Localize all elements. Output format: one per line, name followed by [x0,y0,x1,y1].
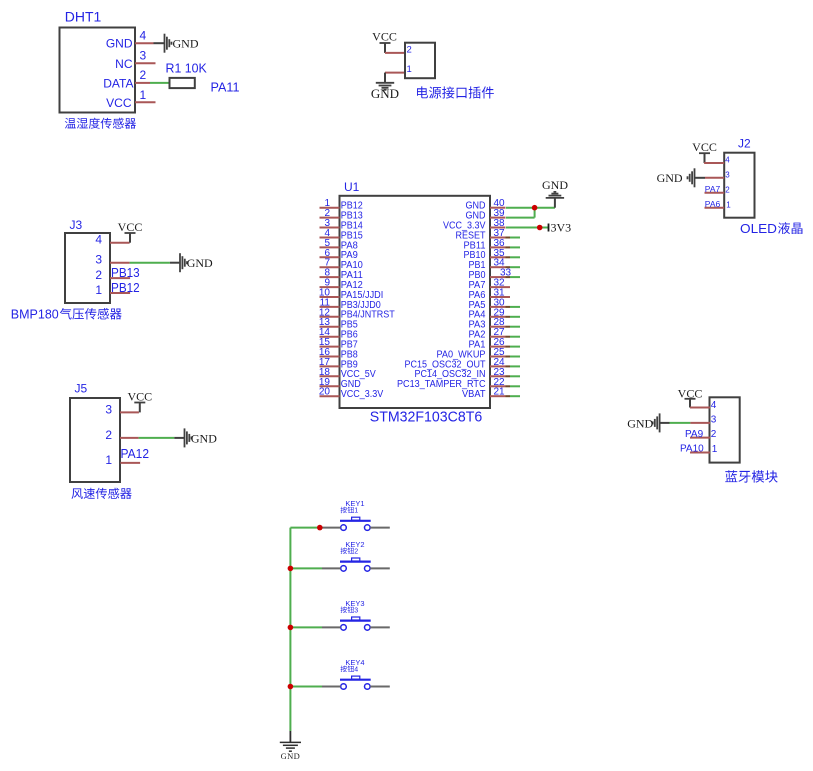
svg-text:J2: J2 [738,137,751,151]
wire U1 pin39 up to pin40 wire [506,208,535,218]
pin 1 of J3 [95,283,130,297]
wire ground to bluetooth pin 3 [660,422,691,424]
pin 9 (PA12) of U1 [320,278,364,291]
component DHT1 (temp/humidity sensor) [60,10,136,113]
svg-text:VCC: VCC [692,140,717,154]
wire pin 1 to ground [384,73,386,83]
pin 26 (PA1) of U1 [469,337,506,350]
svg-text:4: 4 [140,29,147,43]
wire DHT1 pin2 to R1 [150,82,170,84]
svg-text:20: 20 [319,387,331,398]
wire stub at U1 pin 33 [506,276,521,278]
pin 27 (PA2) of U1 [469,327,506,340]
pushbutton KEY3 [345,599,364,608]
pin 1 (PB12) of U1 [320,198,364,211]
pin 2 of power connector [385,44,412,55]
ground symbol (J5) [185,428,218,447]
pin 4 of J2 [704,156,730,165]
pin 29 (PA4) of U1 [469,307,506,320]
svg-text:PA7: PA7 [705,184,721,194]
svg-text:R1 10K: R1 10K [166,61,208,76]
svg-text:2: 2 [140,68,147,82]
pin 18 (VCC_5V) of U1 [319,367,376,380]
pin 33 (PB0) of U1 [469,268,512,281]
svg-text:VBAT: VBAT [462,389,486,400]
wire stub at U1 pin 28 [506,326,521,328]
pin 2 (DATA) of DHT1 [135,68,150,83]
pin 7 (PA10) of U1 [320,258,364,271]
pin 1 of J5 [105,453,140,467]
svg-text:4: 4 [354,667,358,674]
caption: DHT1 温湿度传感器 [65,118,136,129]
pin 6 (PA9) of U1 [320,248,359,261]
pin 2 (PB13) of U1 [320,208,364,221]
wire stub at U1 pin 37 [506,237,521,239]
switch symbol KEY3 [322,617,390,630]
svg-text:3: 3 [354,607,358,614]
junction at GND net [532,205,538,211]
wire stub at U1 pin 22 [506,385,521,387]
power symbol VCC (J3) [118,220,143,243]
power port 3V3 [549,221,572,235]
svg-text:PA11: PA11 [211,80,240,95]
pin 1 of bluetooth [690,444,718,455]
wire key bus to KEY2 [290,567,322,569]
svg-text:1: 1 [407,64,412,75]
connector J5 (wind sensor) body [70,382,120,483]
caption 按钮3 [341,607,359,615]
svg-text:VCC: VCC [372,29,397,43]
connector J2 (OLED) body [724,137,754,218]
wire stub at U1 pin 26 [506,346,521,348]
power symbol VCC (bluetooth) [678,387,703,408]
svg-text:GND: GND [281,751,301,761]
pin 11 (PB3/JJD0) of U1 [320,297,382,310]
wire stub at U1 pin 29 [506,316,521,318]
pushbutton KEY4 [345,658,364,667]
pin 30 (PA5) of U1 [469,297,506,310]
pin 3 of J3 [95,253,129,267]
svg-text:GND: GND [627,416,653,430]
pin 31 (PA6) of U1 [469,288,511,301]
pin 5 (PA8) of U1 [320,238,359,251]
pin 38 (VCC_3.3V) of U1 [443,218,506,231]
wire VCC to pin 2 [384,43,386,53]
pin 32 (PA7) of U1 [469,278,511,291]
svg-text:GND: GND [191,431,217,445]
svg-text:BMP180: BMP180 [11,308,59,322]
wire stub at U1 pin 30 [506,306,521,308]
pin 3 of J2 [705,170,730,179]
pin 16 (PB8) of U1 [319,347,358,360]
caption: OLED液晶 [740,221,802,236]
switch symbol KEY1 [322,517,390,530]
svg-text:PB13: PB13 [111,265,140,280]
pin 10 (PA15/JJDI) of U1 [319,288,383,301]
svg-text:4: 4 [711,400,717,411]
pin 20 (VCC_3.3V) of U1 [319,387,384,400]
pin 2 of J5 [105,428,138,442]
svg-text:GND: GND [371,86,399,101]
svg-text:GND: GND [106,37,133,51]
pin 3 (NC) of DHT1 [135,49,156,64]
ground symbol (bluetooth) [627,413,659,432]
pushbutton KEY1 [345,499,364,508]
pin 2 of J2 [705,185,731,194]
connector J3 (BMP180) body [65,218,110,303]
ground symbol (U1 top right) [542,178,568,198]
caption 按钮1 [341,507,359,515]
pin 37 (RESET) of U1 [456,228,506,241]
pin 3 (PB14) of U1 [320,218,364,231]
junction at KEY2 [288,566,294,572]
pin 25 (PA0_WKUP) of U1 [437,347,506,360]
ground symbol (J2) [657,168,695,187]
pin 13 (PB5) of U1 [319,317,358,330]
wire stub at U1 pin 23 [506,375,521,377]
pin 4 of J3 [95,233,129,247]
pin 34 (PB1) of U1 [469,258,506,271]
pin 22 (PC13_TAMPER_RTC) of U1 [397,377,506,390]
svg-text:PB12: PB12 [111,280,140,295]
power symbol VCC (J5) [127,390,152,413]
svg-text:2: 2 [354,548,358,555]
junction at KEY4 [288,684,294,690]
wire key bus to KEY3 [290,626,322,628]
component body: power connector [405,43,435,78]
wire U1 pin38 to 3V3 [506,227,549,229]
op-amp / MCU U1 STM32F103C8T6 body [340,180,491,426]
pin 4 (PB15) of U1 [320,228,364,241]
wire DHT1 pin4 to ground [154,42,165,44]
svg-text:3: 3 [140,49,147,63]
junction at KEY1 [317,525,323,531]
caption: 电源接口插件 [417,86,494,98]
svg-text:J3: J3 [70,218,83,232]
wire ground to J2 pin 3 [695,177,706,179]
resistor R1 [170,78,195,88]
pin 17 (PB9) of U1 [319,357,358,370]
svg-text:2: 2 [95,268,102,282]
pin 19 (GND) of U1 [319,377,361,390]
svg-text:1: 1 [95,283,102,297]
svg-text:PA6: PA6 [705,199,721,209]
svg-text:DHT1: DHT1 [65,10,102,25]
svg-text:VCC_3.3V: VCC_3.3V [341,389,384,400]
svg-text:3: 3 [105,402,112,416]
wire stub at U1 pin 24 [506,365,521,367]
svg-text:1: 1 [105,453,112,467]
svg-text:GND: GND [187,256,213,270]
wire key bus to ground [289,731,291,742]
pin 2 of J3 [95,268,130,282]
svg-text:DATA: DATA [103,76,133,90]
svg-text:PA12: PA12 [121,446,150,461]
ground symbol (power connector) [371,83,399,101]
svg-text:U1: U1 [344,180,360,194]
junction at KEY3 [288,625,294,631]
power symbol VCC (J2) [692,140,717,163]
wire stub at U1 pin 35 [506,256,521,258]
pin 4 (GND) of DHT1 [135,29,154,44]
ground symbol (J3) [180,253,213,272]
wire stub at U1 pin 36 [506,246,521,248]
pin 15 (PB7) of U1 [319,337,358,350]
caption 按钮2 [341,548,359,556]
svg-text:4: 4 [95,233,102,247]
svg-text:PA10: PA10 [680,444,704,455]
svg-text:GND: GND [657,171,683,185]
pin 12 (PB4/JNTRST) of U1 [319,307,395,320]
pin 21 (VBAT) of U1 [462,387,506,400]
caption: 蓝牙模块 [725,470,778,482]
wire stub at U1 pin 25 [506,356,521,358]
pin 35 (PB10) of U1 [464,248,506,261]
power symbol VCC (power connector) [372,29,397,43]
pin 24 (PC15_OSC32_OUT) of U1 [405,357,506,370]
caption: 风速传感器 [71,488,131,499]
pin 4 of bluetooth [690,400,717,411]
pin 2 of bluetooth [690,429,717,440]
wire J3 pin3 to ground [130,262,180,264]
wire stub at U1 pin 34 [506,266,521,268]
svg-text:VCC: VCC [118,220,143,234]
pushbutton KEY2 [345,540,364,549]
svg-text:21: 21 [494,387,506,398]
svg-text:STM32F103C8T6: STM32F103C8T6 [370,409,483,426]
ground symbol (keys) [280,742,301,761]
caption: BMP180气压传感器 [11,308,122,322]
wire to ground symbol [554,198,556,208]
switch symbol KEY4 [322,676,390,689]
svg-text:GND: GND [173,37,199,51]
caption 按钮4 [341,666,359,674]
svg-text:2: 2 [407,44,412,55]
pin 36 (PB11) of U1 [464,238,506,251]
pin 3 of bluetooth [690,415,716,426]
svg-text:3: 3 [725,170,730,179]
pin 1 (VCC) of DHT1 [135,88,156,103]
svg-text:OLED: OLED [740,221,777,236]
svg-text:3: 3 [711,415,717,426]
wire key bus to KEY1 [290,527,322,529]
pin 1 of J2 [705,200,732,209]
pin 8 (PA11) of U1 [320,268,364,281]
pin 1 of power connector [385,64,412,75]
pin 14 (PB6) of U1 [319,327,358,340]
wire stub at U1 pin 21 [506,395,521,397]
svg-text:J5: J5 [75,382,88,396]
svg-text:2: 2 [105,428,112,442]
svg-text:1: 1 [140,88,147,102]
svg-text:PA9: PA9 [685,429,704,440]
wire U1 pin40 to ground [506,207,555,209]
svg-text:GND: GND [542,178,568,192]
wire key bus vertical [289,528,291,731]
svg-text:1: 1 [354,508,358,515]
svg-text:1: 1 [726,200,731,209]
wire stub at U1 pin 27 [506,336,521,338]
wire J5 pin2 to ground [139,437,185,439]
pin 39 (GND) of U1 [466,208,506,221]
svg-text:NC: NC [115,57,133,71]
svg-text:VCC: VCC [106,96,132,110]
pin 23 (PC14_OSC32_IN) of U1 [415,367,506,380]
svg-text:2: 2 [725,185,730,194]
svg-text:4: 4 [725,156,730,165]
pin 3 of J5 [105,402,139,416]
connector (Bluetooth module) body [710,397,740,462]
junction on 3V3 wire [537,225,543,231]
pin 28 (PA3) of U1 [469,317,506,330]
pin 40 (GND) of U1 [466,198,506,211]
ground symbol (DHT1) [165,34,199,53]
switch symbol KEY2 [322,558,390,571]
svg-text:1: 1 [712,444,718,455]
svg-text:3: 3 [95,253,102,267]
wire key bus to KEY4 [290,686,322,688]
svg-text:2: 2 [711,429,717,440]
svg-text:3V3: 3V3 [551,221,572,235]
